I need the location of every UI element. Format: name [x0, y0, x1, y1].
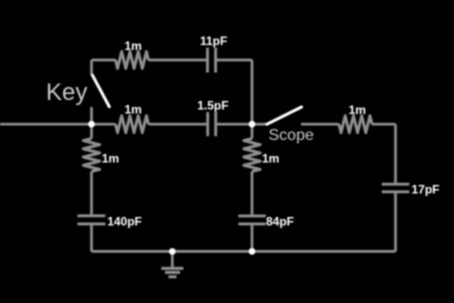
- label C3 value 140pF: [107, 214, 142, 228]
- wire middle branch upper lead: [251, 124, 254, 138]
- label C2 value 1.5pF: [197, 99, 228, 113]
- wire bottom: [92, 250, 396, 253]
- wire left branch upper lead: [90, 124, 93, 138]
- switch S2 Scope blade: [267, 107, 302, 124]
- capacitor C2 1.5pF: [208, 112, 216, 136]
- wire C3 to bottom-left corner: [90, 224, 93, 252]
- svg-text:Key: Key: [46, 79, 87, 106]
- resistor R2 1m (middle): [116, 116, 149, 133]
- svg-text:140pF: 140pF: [107, 214, 142, 228]
- wire key switch upper lead: [90, 60, 93, 75]
- ground stem: [171, 251, 174, 267]
- wire top-right riser: [251, 60, 254, 124]
- label R1 value 1m: [125, 39, 142, 53]
- resistor R3 1m (right): [339, 116, 372, 133]
- svg-text:1m: 1m: [102, 151, 119, 165]
- label R2 value 1m: [125, 102, 142, 116]
- label R5 value 1m: [262, 151, 279, 165]
- switch S1 Key blade: [93, 75, 110, 106]
- svg-text:1.5pF: 1.5pF: [197, 99, 228, 113]
- wire R1 to C1: [149, 59, 207, 62]
- svg-text:1m: 1m: [125, 102, 142, 116]
- wire top branch corner to R1: [92, 59, 116, 62]
- wire right riser upper: [394, 124, 397, 185]
- label R3 value 1m: [349, 103, 366, 117]
- wire R5 to C4: [251, 172, 254, 216]
- label C1 value 11pF: [200, 34, 227, 48]
- wire C1 to top-right corner: [217, 59, 252, 62]
- capacitor C5 17pF: [382, 184, 410, 192]
- resistor R5 1m (middle vertical): [244, 139, 260, 172]
- wire scope switch right post to R3: [301, 123, 339, 126]
- svg-text:1m: 1m: [349, 103, 366, 117]
- wire right riser lower: [394, 192, 397, 252]
- label C5 value 17pF: [412, 182, 440, 196]
- svg-text:11pF: 11pF: [200, 34, 227, 48]
- resistor R4 1m (left vertical): [83, 139, 99, 172]
- label R4 value 1m: [102, 151, 119, 165]
- wire node B to scope switch post: [252, 123, 267, 126]
- wire R2 to C2: [149, 123, 207, 126]
- svg-text:Scope: Scope: [269, 127, 314, 144]
- svg-text:84pF: 84pF: [266, 214, 294, 228]
- svg-text:1m: 1m: [125, 39, 142, 53]
- wire node A to R2: [92, 123, 116, 126]
- ground node dot: [169, 248, 176, 255]
- ground bars: [161, 268, 183, 276]
- label Scope: [269, 127, 314, 144]
- svg-text:1m: 1m: [262, 151, 279, 165]
- svg-text:17pF: 17pF: [412, 182, 440, 196]
- bottom node dot: [249, 248, 256, 255]
- node B dot: [249, 121, 256, 128]
- wire C4 to bottom node: [251, 224, 254, 252]
- wire R3 to right corner: [372, 123, 396, 126]
- capacitor C4 84pF: [238, 216, 265, 224]
- wire R4 to C3: [90, 172, 93, 216]
- node A dot: [88, 121, 95, 128]
- capacitor C1 11pF: [208, 48, 216, 73]
- capacitor C3 140pF: [77, 216, 105, 224]
- label C4 value 84pF: [266, 214, 294, 228]
- wire input left: [0, 123, 92, 126]
- label Key: [46, 79, 87, 106]
- wire C2 to node B: [217, 123, 252, 126]
- wire key switch lower lead: [90, 107, 93, 124]
- resistor R1 1m (top): [116, 52, 149, 69]
